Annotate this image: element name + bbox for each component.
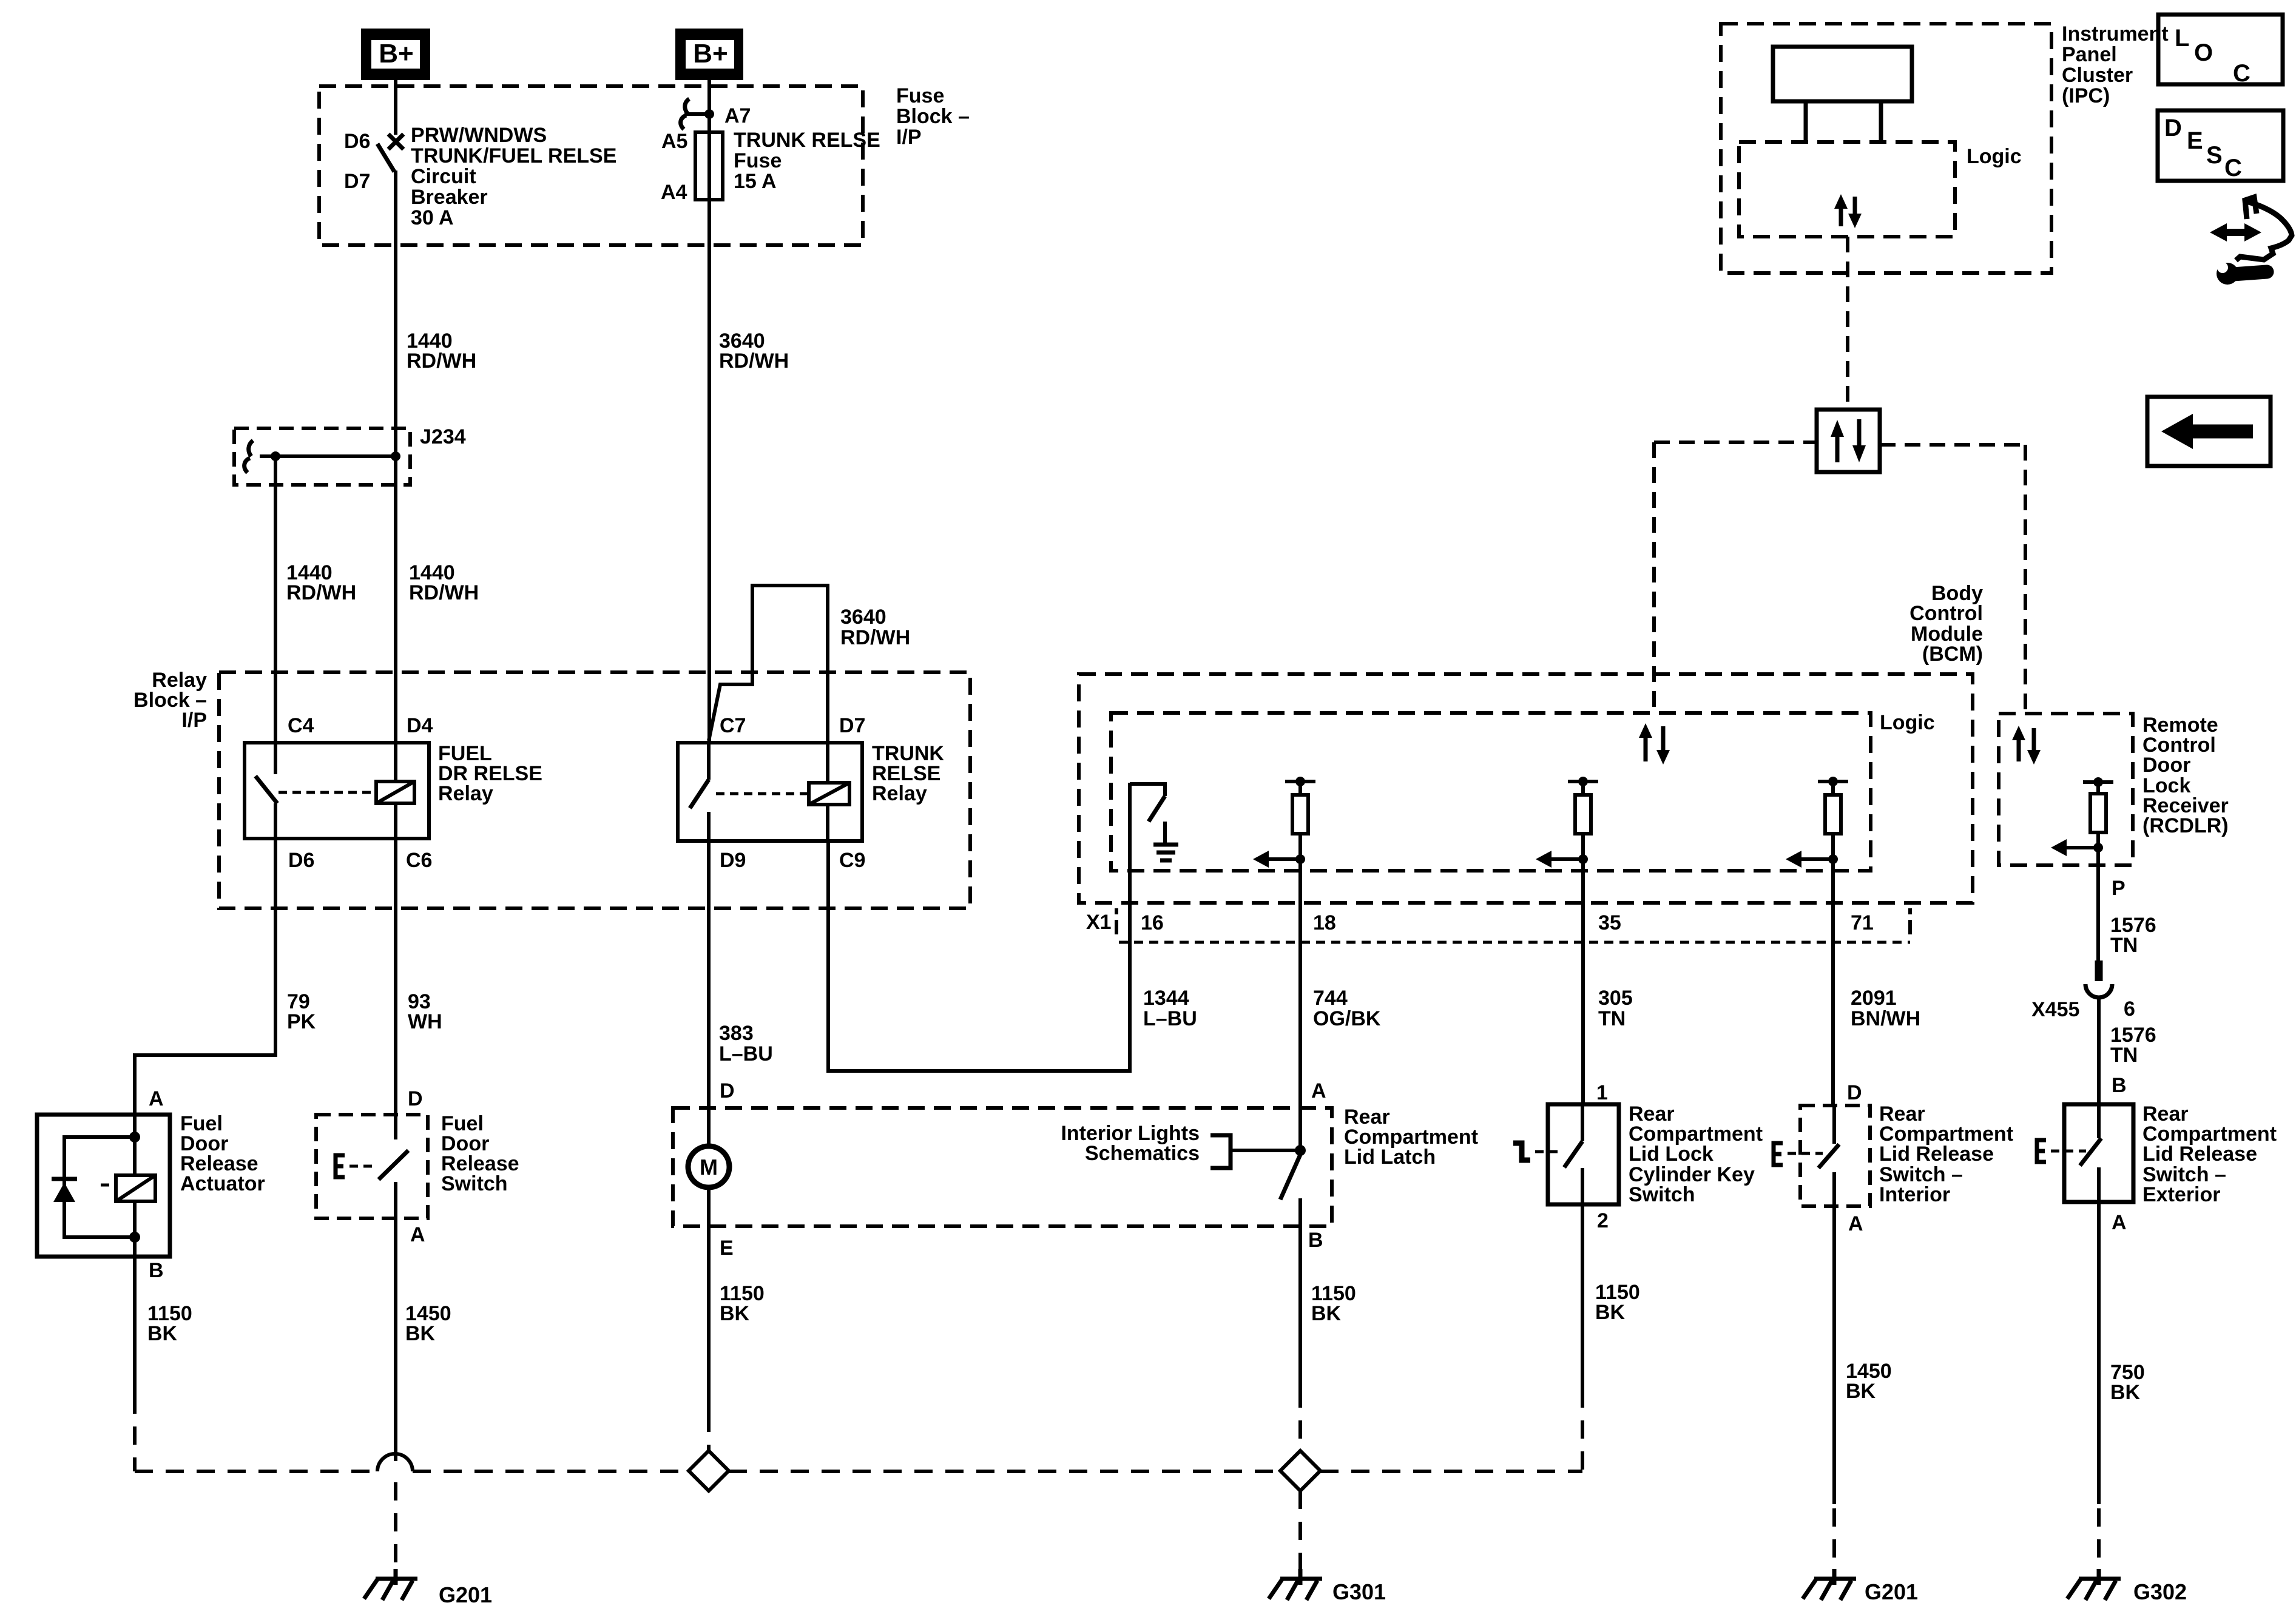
svg-text:TRUNK RELSE: TRUNK RELSE: [734, 129, 880, 152]
svg-text:I/P: I/P: [181, 709, 207, 732]
svg-text:E: E: [2187, 127, 2203, 154]
svg-text:RD/WH: RD/WH: [840, 626, 910, 649]
svg-text:A7: A7: [724, 104, 751, 127]
svg-text:Lid Release: Lid Release: [1879, 1143, 1994, 1166]
svg-text:A: A: [2112, 1211, 2127, 1234]
svg-text:B: B: [149, 1259, 164, 1282]
svg-text:BK: BK: [1846, 1380, 1876, 1403]
svg-text:X455: X455: [2031, 998, 2079, 1021]
svg-text:Switch: Switch: [1629, 1183, 1695, 1206]
svg-text:D: D: [2164, 115, 2182, 141]
svg-text:15 A: 15 A: [734, 170, 777, 193]
svg-text:Lid Latch: Lid Latch: [1344, 1146, 1436, 1169]
svg-text:Breaker: Breaker: [411, 186, 488, 209]
svg-text:Relay: Relay: [438, 782, 493, 805]
svg-text:D7: D7: [344, 170, 370, 193]
svg-text:Lid Lock: Lid Lock: [1629, 1143, 1714, 1166]
svg-text:G201: G201: [439, 1582, 492, 1607]
svg-text:RD/WH: RD/WH: [407, 349, 476, 373]
svg-text:Schematics: Schematics: [1085, 1142, 1200, 1165]
svg-text:A4: A4: [661, 181, 687, 204]
svg-text:(IPC): (IPC): [2062, 84, 2110, 107]
svg-text:Exterior: Exterior: [2142, 1183, 2221, 1206]
svg-text:6: 6: [2124, 998, 2135, 1021]
svg-text:Instrument: Instrument: [2062, 22, 2169, 46]
svg-text:J234: J234: [420, 425, 466, 448]
svg-text:WH: WH: [408, 1010, 442, 1033]
svg-text:Cluster: Cluster: [2062, 64, 2133, 87]
svg-text:D: D: [720, 1079, 735, 1102]
svg-text:(BCM): (BCM): [1922, 643, 1983, 666]
svg-text:Fuse: Fuse: [896, 84, 944, 107]
svg-text:RD/WH: RD/WH: [409, 581, 479, 604]
svg-text:305: 305: [1598, 987, 1633, 1010]
svg-text:Logic: Logic: [1967, 145, 2022, 168]
svg-text:BK: BK: [1311, 1302, 1342, 1325]
svg-text:C4: C4: [288, 714, 314, 737]
svg-text:RD/WH: RD/WH: [719, 349, 789, 373]
svg-text:PK: PK: [287, 1010, 316, 1033]
svg-text:Control: Control: [1909, 602, 1983, 625]
svg-text:BK: BK: [147, 1322, 178, 1345]
svg-text:BK: BK: [1595, 1301, 1626, 1324]
svg-text:(RCDLR): (RCDLR): [2142, 814, 2229, 837]
svg-text:L–BU: L–BU: [1143, 1007, 1197, 1030]
svg-text:PRW/WNDWS: PRW/WNDWS: [411, 124, 547, 147]
svg-text:D6: D6: [288, 849, 314, 872]
svg-text:A: A: [1848, 1212, 1863, 1235]
svg-text:Fuse: Fuse: [734, 149, 782, 172]
svg-text:71: 71: [1851, 911, 1874, 934]
svg-text:30 A: 30 A: [411, 206, 454, 229]
svg-text:B: B: [1308, 1229, 1323, 1252]
svg-text:C: C: [2233, 60, 2250, 87]
svg-text:16: 16: [1141, 911, 1164, 934]
svg-text:D: D: [1847, 1081, 1862, 1104]
svg-text:C9: C9: [839, 849, 865, 872]
svg-text:Block –: Block –: [896, 105, 970, 128]
svg-text:1: 1: [1596, 1081, 1608, 1104]
svg-text:OG/BK: OG/BK: [1313, 1007, 1381, 1030]
svg-text:744: 744: [1313, 987, 1348, 1010]
svg-text:G201: G201: [1865, 1579, 1918, 1604]
svg-text:1344: 1344: [1143, 987, 1189, 1010]
svg-text:BK: BK: [720, 1302, 750, 1325]
svg-text:Interior: Interior: [1879, 1183, 1950, 1206]
svg-text:P: P: [2112, 877, 2125, 900]
svg-text:BN/WH: BN/WH: [1851, 1007, 1920, 1030]
svg-text:L: L: [2175, 25, 2189, 52]
svg-text:D9: D9: [720, 849, 746, 872]
svg-text:35: 35: [1598, 911, 1621, 934]
svg-text:X1: X1: [1086, 911, 1112, 934]
svg-text:TN: TN: [1598, 1007, 1626, 1030]
svg-text:G302: G302: [2133, 1579, 2187, 1604]
svg-text:TN: TN: [2110, 934, 2138, 957]
svg-text:C7: C7: [720, 714, 746, 737]
svg-text:I/P: I/P: [896, 126, 922, 149]
svg-text:RD/WH: RD/WH: [286, 581, 356, 604]
svg-text:TRUNK/FUEL RELSE: TRUNK/FUEL RELSE: [411, 144, 616, 167]
svg-text:Panel: Panel: [2062, 43, 2117, 66]
svg-text:Relay: Relay: [872, 782, 927, 805]
svg-text:Actuator: Actuator: [180, 1172, 265, 1195]
svg-text:383: 383: [719, 1022, 754, 1045]
svg-text:S: S: [2206, 142, 2223, 169]
svg-text:2091: 2091: [1851, 987, 1897, 1010]
svg-text:A: A: [410, 1223, 425, 1246]
svg-text:C6: C6: [406, 849, 432, 872]
svg-text:Logic: Logic: [1880, 711, 1935, 734]
svg-text:Switch: Switch: [441, 1172, 508, 1195]
svg-text:3640: 3640: [840, 606, 886, 629]
svg-text:TN: TN: [2110, 1044, 2138, 1067]
svg-text:G301: G301: [1332, 1579, 1386, 1604]
svg-text:A5: A5: [661, 130, 687, 153]
svg-text:BK: BK: [405, 1322, 436, 1345]
svg-text:D4: D4: [407, 714, 433, 737]
svg-text:M: M: [700, 1155, 718, 1180]
svg-text:D7: D7: [839, 714, 865, 737]
svg-text:D6: D6: [344, 130, 370, 153]
svg-text:E: E: [720, 1237, 734, 1260]
svg-text:B: B: [2112, 1074, 2127, 1097]
svg-text:Door: Door: [2142, 754, 2190, 777]
svg-text:18: 18: [1313, 911, 1336, 934]
svg-text:2: 2: [1597, 1209, 1609, 1232]
svg-text:B+: B+: [379, 39, 413, 69]
svg-text:D: D: [408, 1087, 423, 1110]
svg-text:B+: B+: [693, 39, 728, 69]
svg-text:O: O: [2194, 39, 2213, 66]
svg-text:Circuit: Circuit: [411, 165, 476, 188]
svg-text:C: C: [2224, 155, 2242, 181]
svg-text:Lid Release: Lid Release: [2142, 1143, 2257, 1166]
svg-text:A: A: [149, 1087, 164, 1110]
svg-text:A: A: [1311, 1079, 1326, 1102]
svg-text:L–BU: L–BU: [719, 1042, 773, 1065]
svg-text:BK: BK: [2110, 1381, 2141, 1404]
